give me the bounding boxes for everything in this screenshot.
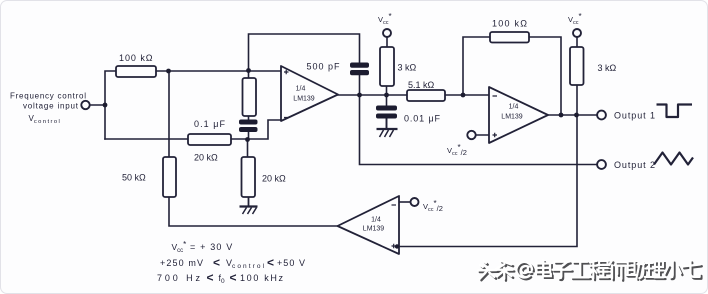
svg-text:Vcc*/2: Vcc*/2 — [447, 143, 467, 157]
svg-text:50 kΩ: 50 kΩ — [122, 173, 146, 183]
svg-text:Vcc*: Vcc* — [568, 12, 582, 26]
svg-text:<: < — [207, 271, 214, 285]
svg-text:<: < — [230, 271, 237, 285]
svg-text:0.1 μF: 0.1 μF — [194, 119, 226, 129]
svg-text:Frequency control: Frequency control — [10, 92, 86, 101]
svg-text:LM139: LM139 — [501, 114, 523, 121]
svg-text:LM139: LM139 — [293, 96, 315, 103]
svg-text:<: < — [267, 256, 274, 270]
svg-text:20 kΩ: 20 kΩ — [194, 153, 218, 163]
svg-text:100 kHz: 100 kHz — [240, 273, 284, 283]
svg-text:Output 1: Output 1 — [614, 111, 655, 121]
svg-text:voltage input: voltage input — [23, 102, 79, 111]
svg-text:0.01 μF: 0.01 μF — [404, 114, 441, 124]
svg-text:20 kΩ: 20 kΩ — [262, 174, 286, 184]
svg-text:f0: f0 — [219, 273, 226, 285]
svg-text:Vcontrol: Vcontrol — [226, 258, 265, 270]
svg-text:3 kΩ: 3 kΩ — [398, 63, 417, 73]
svg-text:Vcc*/2: Vcc*/2 — [423, 199, 443, 213]
svg-text:1/4: 1/4 — [296, 86, 306, 93]
svg-text:<: < — [213, 256, 220, 270]
svg-text:Vcc*: Vcc* — [378, 12, 392, 26]
svg-text:Output 2: Output 2 — [614, 160, 655, 170]
svg-text:+250 mV: +250 mV — [160, 258, 203, 268]
svg-text:5.1 kΩ: 5.1 kΩ — [408, 80, 435, 90]
svg-text:1/4: 1/4 — [509, 104, 519, 111]
svg-text:LM139: LM139 — [363, 226, 385, 233]
svg-text:100 kΩ: 100 kΩ — [119, 53, 153, 63]
svg-text:700 Hz: 700 Hz — [157, 273, 201, 283]
svg-text:3 kΩ: 3 kΩ — [598, 63, 617, 73]
svg-text:+50 V: +50 V — [277, 258, 305, 268]
svg-text:500 pF: 500 pF — [307, 62, 341, 72]
svg-text:1/4: 1/4 — [371, 217, 381, 224]
svg-text:Vcc* = + 30 V: Vcc* = + 30 V — [172, 240, 233, 254]
svg-text:100 kΩ: 100 kΩ — [492, 19, 527, 29]
svg-text:Vcontrol: Vcontrol — [29, 114, 60, 125]
